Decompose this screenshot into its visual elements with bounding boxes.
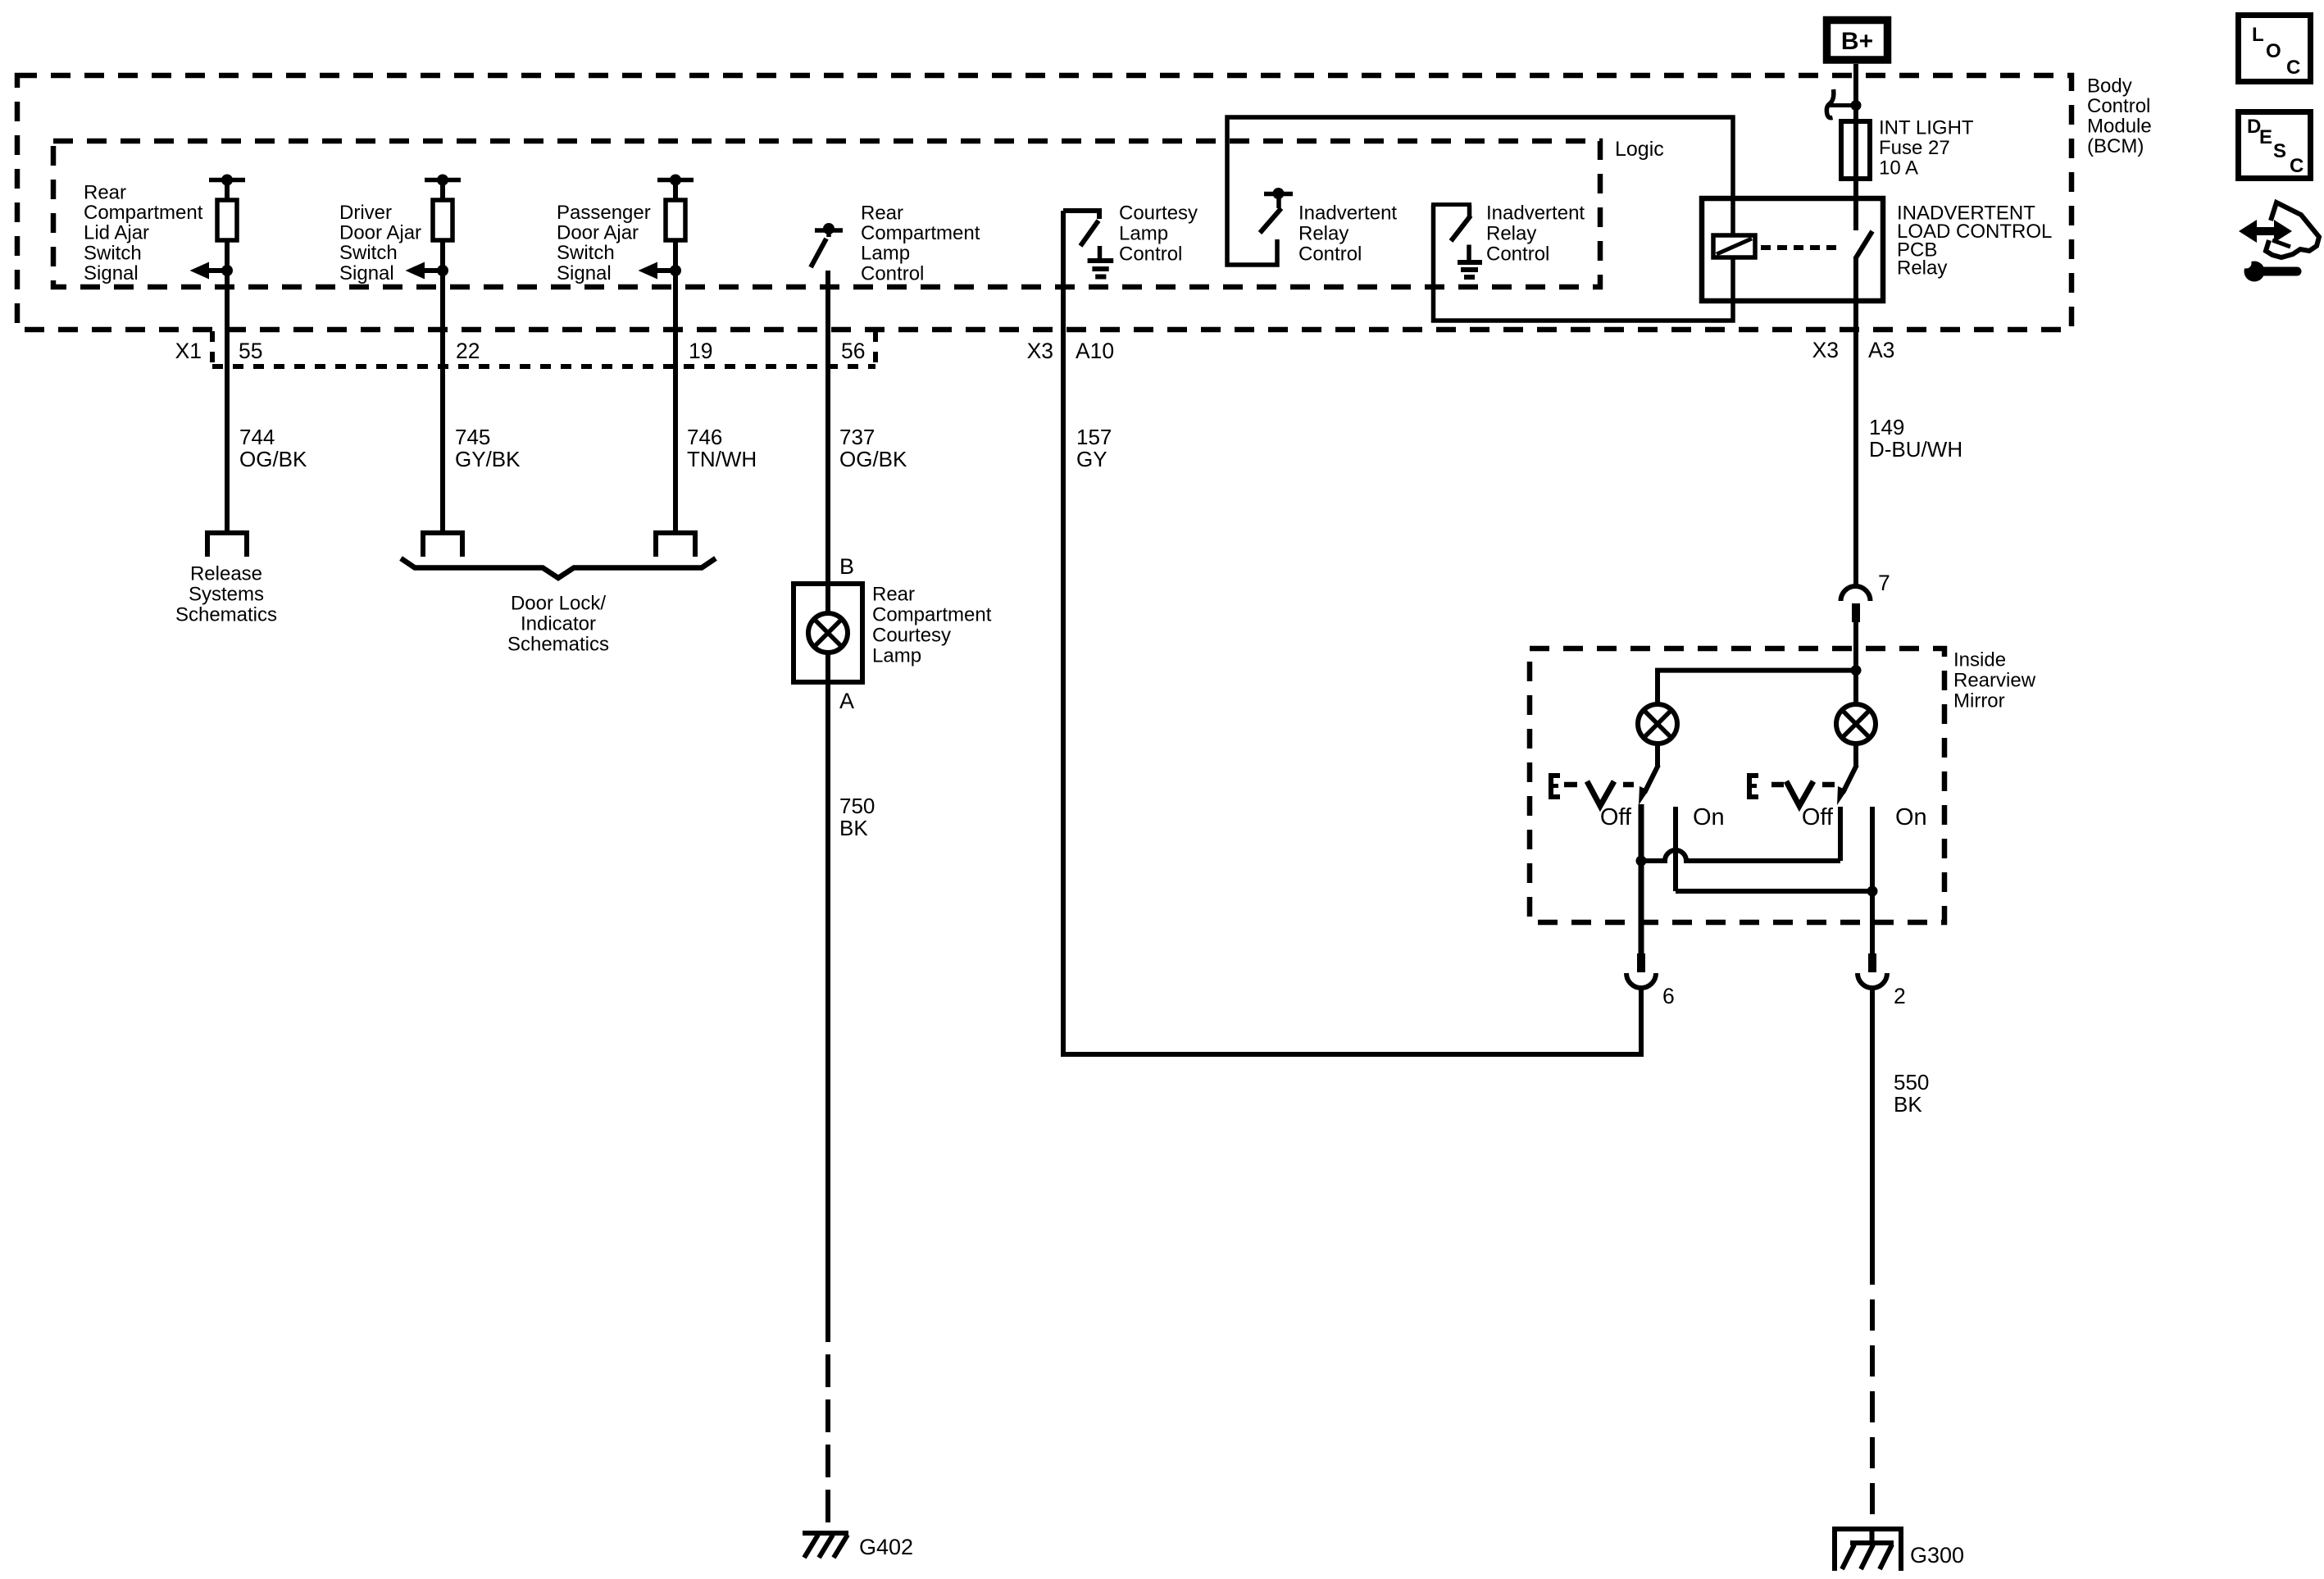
svg-text:GY/BK: GY/BK xyxy=(455,447,521,471)
svg-text:A3: A3 xyxy=(1868,338,1894,362)
svg-text:745: 745 xyxy=(455,425,490,449)
svg-text:Lamp: Lamp xyxy=(861,243,910,265)
svg-text:Off: Off xyxy=(1600,804,1632,830)
svg-text:A10: A10 xyxy=(1076,339,1114,363)
svg-text:INT LIGHT: INT LIGHT xyxy=(1879,117,1974,139)
svg-text:Lid Ajar: Lid Ajar xyxy=(84,222,149,244)
svg-text:G300: G300 xyxy=(1910,1543,1964,1568)
svg-text:Compartment: Compartment xyxy=(84,202,203,224)
svg-text:Mirror: Mirror xyxy=(1953,690,2005,712)
svg-text:Rear: Rear xyxy=(84,182,126,204)
svg-text:Lamp: Lamp xyxy=(1119,223,1168,245)
svg-text:BK: BK xyxy=(839,816,868,840)
svg-text:Body: Body xyxy=(2087,75,2132,98)
svg-text:C: C xyxy=(2290,155,2304,177)
svg-text:56: 56 xyxy=(841,339,865,363)
svg-text:G402: G402 xyxy=(859,1535,913,1559)
svg-text:Inside: Inside xyxy=(1953,649,2006,671)
svg-text:Control: Control xyxy=(1298,243,1362,266)
svg-text:OG/BK: OG/BK xyxy=(239,447,307,471)
svg-text:Door Ajar: Door Ajar xyxy=(339,222,421,244)
svg-text:S: S xyxy=(2273,140,2286,162)
svg-text:149: 149 xyxy=(1869,415,1904,439)
svg-text:Relay: Relay xyxy=(1897,257,1947,280)
svg-text:Logic: Logic xyxy=(1615,138,1664,161)
svg-text:Off: Off xyxy=(1802,804,1834,830)
svg-text:10 A: 10 A xyxy=(1879,157,1918,180)
svg-text:Passenger: Passenger xyxy=(557,202,651,224)
svg-text:Door Ajar: Door Ajar xyxy=(557,222,639,244)
svg-text:Courtesy: Courtesy xyxy=(872,625,951,647)
svg-text:744: 744 xyxy=(239,425,275,449)
svg-text:B: B xyxy=(839,554,854,579)
svg-text:7: 7 xyxy=(1878,571,1890,595)
svg-text:6: 6 xyxy=(1662,984,1675,1008)
svg-text:Inadvertent: Inadvertent xyxy=(1298,202,1397,225)
svg-text:D-BU/WH: D-BU/WH xyxy=(1869,437,1962,462)
svg-text:X3: X3 xyxy=(1027,339,1053,363)
svg-text:Rearview: Rearview xyxy=(1953,670,2036,692)
svg-text:Rear: Rear xyxy=(872,584,915,606)
svg-text:E: E xyxy=(2259,126,2272,148)
svg-text:GY: GY xyxy=(1076,447,1107,471)
svg-text:Compartment: Compartment xyxy=(861,222,980,244)
svg-text:550: 550 xyxy=(1894,1070,1929,1094)
svg-text:(BCM): (BCM) xyxy=(2087,135,2144,157)
svg-text:Switch: Switch xyxy=(339,242,398,264)
svg-text:157: 157 xyxy=(1076,425,1112,449)
svg-text:Indicator: Indicator xyxy=(521,613,596,635)
svg-text:C: C xyxy=(2286,57,2300,79)
svg-text:Schematics: Schematics xyxy=(175,604,277,626)
svg-text:L: L xyxy=(2252,24,2264,46)
svg-text:Schematics: Schematics xyxy=(507,634,609,656)
svg-text:Signal: Signal xyxy=(557,262,612,284)
svg-text:BK: BK xyxy=(1894,1092,1922,1117)
svg-text:Systems: Systems xyxy=(189,584,264,606)
svg-text:Relay: Relay xyxy=(1486,223,1536,245)
svg-text:Signal: Signal xyxy=(84,262,139,284)
svg-text:Door Lock/: Door Lock/ xyxy=(511,593,606,615)
svg-text:Inadvertent: Inadvertent xyxy=(1486,202,1585,225)
svg-text:Control: Control xyxy=(1119,243,1182,266)
svg-text:Control: Control xyxy=(2087,95,2150,117)
svg-text:On: On xyxy=(1693,804,1725,830)
svg-text:737: 737 xyxy=(839,425,875,449)
svg-text:Driver: Driver xyxy=(339,202,392,224)
svg-text:19: 19 xyxy=(689,339,712,363)
svg-text:On: On xyxy=(1895,804,1927,830)
svg-text:Switch: Switch xyxy=(84,242,142,264)
svg-text:55: 55 xyxy=(239,339,262,363)
svg-text:Relay: Relay xyxy=(1298,223,1348,245)
svg-text:A: A xyxy=(839,689,854,713)
svg-text:2: 2 xyxy=(1894,984,1906,1008)
svg-text:Compartment: Compartment xyxy=(872,604,992,626)
svg-text:Release: Release xyxy=(190,563,262,585)
svg-text:Control: Control xyxy=(1486,243,1549,266)
svg-text:746: 746 xyxy=(687,425,722,449)
svg-text:X3: X3 xyxy=(1812,338,1839,362)
svg-text:750: 750 xyxy=(839,794,875,818)
svg-text:Courtesy: Courtesy xyxy=(1119,202,1198,225)
svg-text:22: 22 xyxy=(456,339,480,363)
svg-text:Module: Module xyxy=(2087,116,2152,138)
svg-text:X1: X1 xyxy=(175,339,202,363)
svg-text:O: O xyxy=(2266,40,2281,62)
svg-text:Fuse 27: Fuse 27 xyxy=(1879,137,1950,159)
svg-text:Switch: Switch xyxy=(557,242,615,264)
svg-text:OG/BK: OG/BK xyxy=(839,447,907,471)
svg-text:B+: B+ xyxy=(1841,28,1873,55)
svg-text:Signal: Signal xyxy=(339,262,394,284)
svg-text:Rear: Rear xyxy=(861,202,903,225)
svg-text:Control: Control xyxy=(861,262,924,284)
svg-text:TN/WH: TN/WH xyxy=(687,447,757,471)
svg-text:Lamp: Lamp xyxy=(872,645,921,667)
